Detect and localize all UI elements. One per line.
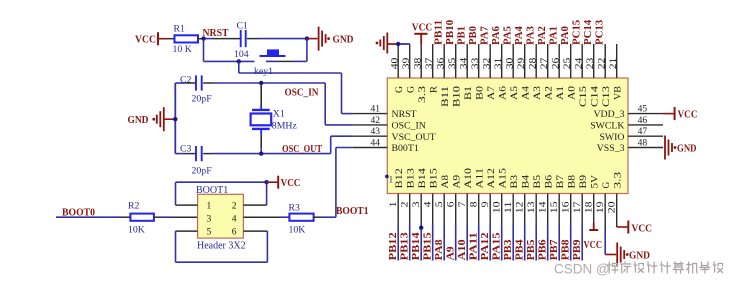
svg-text:VDD_3: VDD_3 — [593, 109, 624, 120]
svg-text:19: 19 — [596, 201, 606, 213]
svg-text:PB3: PB3 — [503, 239, 514, 260]
svg-text:2: 2 — [401, 201, 411, 207]
pin 16 — [570, 194, 572, 226]
pin 5 — [443, 194, 445, 226]
svg-text:20pF: 20pF — [192, 165, 213, 176]
svg-text:PA7: PA7 — [480, 26, 491, 45]
pin 3 — [420, 194, 422, 226]
svg-text:16: 16 — [562, 201, 572, 213]
svg-text:R3: R3 — [289, 203, 301, 214]
svg-text:47: 47 — [638, 127, 648, 137]
svg-text:A3: A3 — [532, 86, 543, 100]
wire pin 17 net — [581, 225, 583, 261]
pin 47 — [628, 135, 663, 137]
svg-text:6: 6 — [232, 228, 237, 238]
svg-text:31: 31 — [494, 57, 504, 69]
pin 11 — [512, 194, 514, 226]
junction pin3 net — [419, 226, 423, 230]
svg-text:B9: B9 — [578, 175, 589, 189]
wire OSC_IN to pin42 — [325, 124, 353, 126]
svg-text:B11: B11 — [440, 86, 451, 107]
wire pin 15 net — [558, 225, 560, 261]
pin 30 — [512, 44, 514, 78]
wire pin 13 net — [535, 225, 537, 261]
svg-text:48: 48 — [638, 138, 648, 148]
svg-text:A4: A4 — [521, 86, 532, 100]
svg-text:C1: C1 — [237, 20, 249, 31]
svg-text:32: 32 — [482, 57, 492, 69]
svg-text:PA6: PA6 — [491, 26, 502, 45]
svg-text:PA11: PA11 — [469, 232, 480, 260]
wire NRST vertical — [341, 73, 343, 114]
pin 6 stub — [243, 230, 267, 232]
pin 32 — [489, 44, 491, 78]
svg-text:PA8: PA8 — [434, 239, 445, 260]
pin 15 — [558, 194, 560, 226]
wire OSC_OUT — [213, 153, 331, 155]
svg-text:38: 38 — [413, 57, 423, 69]
push button key1 — [266, 60, 279, 62]
svg-text:35: 35 — [448, 57, 458, 69]
pin 4 stub to R3 — [243, 216, 281, 218]
svg-text:4: 4 — [424, 201, 434, 207]
ground (pin 19) — [617, 243, 624, 267]
svg-text:3.3: 3.3 — [417, 86, 428, 103]
pin 20 — [616, 194, 618, 226]
pin 41 — [353, 113, 388, 115]
wire pin 4 net — [432, 225, 434, 261]
resistor R3 — [289, 214, 313, 221]
wire pin 12 net — [524, 225, 526, 261]
svg-text:44: 44 — [371, 138, 381, 148]
wire NRST down — [203, 39, 205, 62]
svg-text:4: 4 — [232, 215, 237, 225]
svg-text:PA1: PA1 — [549, 26, 560, 45]
wire OSC_IN vertical — [324, 83, 326, 125]
svg-text:29: 29 — [517, 57, 527, 69]
svg-text:VCC: VCC — [281, 178, 301, 189]
wire NRST horizontal — [239, 72, 342, 74]
wire OSC_OUT to pin43 — [331, 135, 353, 137]
pin 17 — [581, 194, 583, 226]
capacitor C2 — [196, 75, 202, 90]
svg-text:VCC: VCC — [632, 223, 653, 234]
svg-text:A5: A5 — [509, 86, 520, 100]
svg-text:VCC: VCC — [584, 240, 603, 251]
ground (crystal) — [157, 107, 164, 131]
wire pin 10 net — [501, 225, 503, 261]
lead R2 left — [120, 216, 130, 218]
pin 6 — [455, 194, 457, 226]
svg-text:3: 3 — [412, 201, 422, 207]
svg-text:42: 42 — [371, 116, 381, 126]
pin 31 — [501, 44, 503, 78]
svg-text:10K: 10K — [289, 224, 306, 235]
svg-text:A0: A0 — [567, 86, 578, 100]
svg-text:PB14: PB14 — [411, 232, 422, 260]
svg-text:A7: A7 — [486, 86, 497, 100]
pin 23 — [593, 44, 595, 78]
power VCC (pin 20) — [627, 221, 629, 234]
pin 46 — [628, 124, 663, 126]
svg-text:9: 9 — [481, 201, 491, 207]
header P1 BOOT1 (Header 3X2) — [198, 194, 244, 238]
svg-text:15: 15 — [550, 201, 560, 213]
svg-text:PB8: PB8 — [561, 239, 572, 260]
svg-text:VCC: VCC — [678, 109, 698, 120]
svg-text:PC13: PC13 — [595, 20, 606, 45]
wire top BOOT1 loop — [176, 181, 267, 183]
svg-text:6: 6 — [447, 201, 457, 207]
svg-text:PA2: PA2 — [537, 26, 548, 45]
svg-text:20pF: 20pF — [192, 94, 213, 105]
pin 42 — [353, 124, 388, 126]
svg-text:5: 5 — [207, 228, 212, 238]
wire down to pin2 — [266, 182, 268, 205]
pin 27 — [547, 44, 549, 78]
power VCC (boot header) — [277, 176, 279, 189]
svg-text:11: 11 — [504, 201, 514, 213]
pin 7 — [466, 194, 468, 226]
wire key1 to NRST pin — [238, 61, 240, 73]
wire VCC to R1 — [158, 38, 168, 40]
svg-text:VCC: VCC — [412, 23, 432, 34]
svg-text:SWIO: SWIO — [599, 132, 624, 143]
svg-text:PA0: PA0 — [560, 26, 571, 45]
svg-text:VSS_3: VSS_3 — [597, 143, 625, 154]
wire rail to C2 — [175, 82, 186, 84]
pin 36 — [443, 44, 445, 78]
wire rail to C3 — [175, 153, 186, 155]
svg-text:25: 25 — [563, 57, 573, 69]
svg-text:B7: B7 — [555, 175, 566, 189]
power VCC (pin 45) — [674, 107, 676, 120]
pin 48 — [628, 147, 663, 149]
svg-text:23: 23 — [586, 57, 596, 69]
power VCC (pin 38) — [414, 33, 427, 35]
svg-text:GND: GND — [629, 250, 650, 261]
wire pin 19 to GND — [604, 225, 606, 230]
svg-text:PB13: PB13 — [400, 232, 411, 260]
wire pin45 to VCC — [663, 113, 674, 115]
ground (pin 48) — [665, 136, 672, 160]
svg-text:1: 1 — [207, 202, 212, 212]
svg-text:B13: B13 — [406, 168, 417, 189]
wire BOOT1 vertical — [335, 148, 337, 218]
svg-text:24: 24 — [574, 57, 584, 69]
junction NRST — [201, 36, 205, 40]
svg-text:C14: C14 — [590, 86, 601, 107]
pin 22 — [604, 44, 606, 78]
svg-text:26: 26 — [551, 57, 561, 69]
svg-text:G: G — [601, 182, 612, 189]
svg-text:13: 13 — [527, 201, 537, 213]
svg-text:B1: B1 — [463, 86, 474, 100]
pin 43 — [353, 135, 388, 137]
svg-text:40: 40 — [390, 57, 400, 69]
pin 26 — [558, 44, 560, 78]
svg-text:B5: B5 — [532, 175, 543, 189]
svg-text:B10: B10 — [452, 86, 463, 107]
wire NRST node to C1 — [204, 38, 214, 40]
pin 1 — [397, 194, 399, 226]
pin 1 stub — [176, 204, 198, 206]
lead R2 right — [154, 216, 162, 218]
svg-text:PB0: PB0 — [468, 26, 479, 45]
pin 28 — [535, 44, 537, 78]
wire GND node down — [306, 39, 308, 62]
wire crystal to OSC_OUT — [260, 148, 262, 154]
svg-text:A8: A8 — [440, 175, 451, 189]
svg-text:46: 46 — [638, 116, 648, 126]
capacitor C1 — [241, 30, 246, 47]
svg-text:PB12: PB12 — [388, 232, 399, 260]
capacitor C3 — [196, 146, 202, 161]
svg-text:8MHz: 8MHz — [272, 120, 298, 131]
svg-text:R2: R2 — [128, 200, 140, 211]
wire to VCC bar — [267, 181, 278, 183]
wire R3 to BOOT1 — [322, 216, 336, 218]
svg-text:G: G — [406, 86, 417, 93]
pin 40 — [397, 44, 399, 78]
wire key1 left contact — [204, 60, 255, 62]
svg-text:43: 43 — [371, 127, 381, 137]
svg-text:1: 1 — [389, 175, 394, 185]
wire BOOT1 to pin44 — [336, 147, 353, 149]
svg-text:1: 1 — [389, 201, 399, 207]
svg-text:PB7: PB7 — [549, 239, 560, 260]
pin 13 — [535, 194, 537, 226]
junction GND rail — [173, 117, 177, 121]
svg-text:C3: C3 — [180, 143, 192, 154]
svg-text:A9: A9 — [452, 175, 463, 189]
svg-text:10K: 10K — [128, 224, 145, 235]
pin 19 — [604, 194, 606, 226]
resistor R1 — [175, 35, 199, 42]
svg-text:A10: A10 — [463, 168, 474, 189]
svg-text:BOOT1: BOOT1 — [336, 206, 369, 217]
svg-text:B8: B8 — [567, 175, 578, 189]
wire left rail (C2/C3/GND) — [174, 83, 176, 154]
svg-text:A11: A11 — [475, 168, 486, 189]
svg-text:33: 33 — [471, 57, 481, 69]
svg-text:2: 2 — [232, 202, 237, 212]
svg-text:3.3: 3.3 — [613, 172, 624, 189]
pin 29 — [524, 44, 526, 78]
pin 14 — [547, 194, 549, 226]
svg-text:28: 28 — [528, 57, 538, 69]
svg-text:OSC_OUT: OSC_OUT — [282, 144, 322, 155]
wire pin 8 net — [478, 225, 480, 261]
svg-text:A9: A9 — [446, 246, 457, 260]
power VCC (pin 18) — [593, 223, 595, 230]
svg-text:R: R — [429, 86, 440, 93]
svg-text:B4: B4 — [521, 175, 532, 189]
svg-text:10: 10 — [493, 201, 503, 213]
svg-text:C15: C15 — [578, 86, 589, 107]
wire pin 5 net — [443, 225, 445, 261]
svg-text:NRST: NRST — [203, 28, 229, 39]
svg-text:7: 7 — [458, 201, 468, 207]
svg-text:OSC_IN: OSC_IN — [285, 87, 319, 98]
svg-text:17: 17 — [573, 201, 583, 213]
svg-text:B14: B14 — [417, 168, 428, 189]
wire bottom loop — [176, 261, 268, 263]
junction pin40 — [396, 42, 400, 46]
svg-text:PB4: PB4 — [515, 239, 526, 260]
wire to GND symbol — [307, 38, 318, 40]
wire OSC_OUT vertical — [330, 136, 332, 153]
ground (NRST RC) — [319, 27, 326, 51]
svg-text:B3: B3 — [509, 175, 520, 189]
pin 3 stub — [170, 216, 198, 218]
svg-text:PC14: PC14 — [583, 20, 594, 45]
wire pin5 down — [175, 231, 177, 262]
lead crystal bottom — [260, 135, 262, 148]
svg-text:30: 30 — [505, 57, 515, 69]
svg-text:key1: key1 — [254, 66, 273, 77]
svg-text:B15: B15 — [429, 168, 440, 189]
wire OSC_IN — [213, 82, 325, 84]
lead C3 right — [203, 153, 213, 155]
svg-text:21: 21 — [609, 57, 619, 69]
svg-text:5: 5 — [435, 201, 445, 207]
wire R2 to header — [162, 216, 170, 218]
svg-text:R1: R1 — [174, 24, 186, 35]
svg-text:39: 39 — [402, 57, 412, 69]
svg-text:PB5: PB5 — [526, 239, 537, 260]
svg-text:PB10: PB10 — [445, 20, 456, 45]
svg-text:34: 34 — [459, 57, 469, 69]
svg-text:C13: C13 — [601, 86, 612, 107]
svg-text:45: 45 — [638, 105, 648, 115]
pin 38 — [420, 44, 422, 78]
watermark CJK glyphs — [608, 262, 723, 273]
svg-text:18: 18 — [585, 201, 595, 213]
svg-text:20: 20 — [608, 201, 618, 213]
svg-text:A6: A6 — [498, 86, 509, 100]
pin 21 — [616, 44, 618, 78]
svg-text:GND: GND — [333, 34, 354, 45]
wire pin 11 net — [512, 225, 514, 261]
pin 10 — [501, 194, 503, 226]
svg-text:8: 8 — [470, 201, 480, 207]
wire pin 14 net — [547, 225, 549, 261]
pin 44 — [353, 147, 388, 149]
svg-text:CSDN @: CSDN @ — [554, 262, 610, 277]
pin 24 — [581, 44, 583, 78]
svg-text:5V: 5V — [590, 175, 601, 189]
svg-text:C2: C2 — [180, 74, 192, 85]
svg-text:10 K: 10 K — [173, 44, 192, 55]
lead C1 right — [247, 38, 259, 40]
svg-text:PA3: PA3 — [526, 26, 537, 45]
svg-text:B00T1: B00T1 — [392, 143, 419, 154]
svg-text:3: 3 — [207, 215, 212, 225]
junction VCC boot — [264, 180, 268, 184]
pin 8 — [478, 194, 480, 226]
wire NRST to pin41 — [342, 113, 353, 115]
svg-text:37: 37 — [425, 57, 435, 69]
svg-text:PB6: PB6 — [538, 239, 549, 260]
pin 37 — [432, 44, 434, 78]
svg-text:PB15: PB15 — [423, 232, 434, 260]
wire BOOT0 — [56, 216, 120, 218]
op-amp U1 STM32 body — [387, 78, 628, 194]
svg-text:GND: GND — [677, 143, 697, 154]
junction GND node — [305, 36, 309, 40]
crystal X1 8MHz — [260, 106, 262, 110]
svg-text:36: 36 — [436, 57, 446, 69]
svg-text:22: 22 — [597, 57, 607, 69]
wire up to pin6 — [266, 231, 268, 262]
pin 4 — [432, 194, 434, 226]
svg-text:VSC_OUT: VSC_OUT — [392, 132, 436, 143]
pin 39 — [409, 44, 411, 78]
svg-text:B0: B0 — [475, 86, 486, 100]
svg-text:A1: A1 — [555, 86, 566, 100]
svg-text:PA4: PA4 — [514, 26, 525, 45]
ground (pins 40,39) — [380, 33, 387, 54]
power VCC (R1 input) — [157, 32, 159, 45]
pin 1 marker — [385, 175, 389, 179]
pin 18 — [593, 194, 595, 226]
svg-text:PB9: PB9 — [572, 239, 583, 260]
svg-text:X1: X1 — [273, 109, 285, 120]
wire pin 2 net — [409, 225, 411, 261]
pin 9 — [489, 194, 491, 226]
pin 2 — [409, 194, 411, 226]
pin 35 — [455, 44, 457, 78]
junction crystal bottom — [259, 151, 263, 155]
svg-text:SWCLK: SWCLK — [590, 121, 624, 132]
svg-text:BOOT1: BOOT1 — [196, 185, 228, 196]
svg-text:A10: A10 — [457, 239, 468, 260]
svg-text:A12: A12 — [486, 168, 497, 189]
svg-text:PA15: PA15 — [492, 232, 503, 260]
svg-text:104: 104 — [234, 49, 249, 60]
wire pin 3 net — [420, 225, 422, 261]
wire pin 7 net — [466, 225, 468, 261]
svg-text:12: 12 — [516, 201, 526, 213]
svg-text:PA5: PA5 — [503, 26, 514, 45]
svg-text:PB1: PB1 — [457, 26, 468, 45]
wire pin 16 net — [570, 225, 572, 261]
svg-text:VCC: VCC — [135, 34, 156, 45]
svg-text:OSC_IN: OSC_IN — [392, 121, 426, 132]
wire pins 40-39 to GND — [387, 43, 398, 45]
svg-text:Header 3X2: Header 3X2 — [197, 240, 246, 251]
svg-text:PA12: PA12 — [480, 232, 491, 260]
pin 2 stub — [243, 204, 266, 206]
wire C1 to GND node — [259, 38, 307, 40]
lead crystal top — [260, 83, 262, 107]
svg-text:14: 14 — [539, 201, 549, 213]
svg-text:27: 27 — [540, 57, 550, 69]
junction crystal top — [259, 81, 263, 85]
svg-text:VB: VB — [613, 86, 624, 100]
wire pin 6 net — [455, 225, 457, 261]
pin 25 — [570, 44, 572, 78]
svg-text:G: G — [394, 86, 405, 93]
pin 33 — [478, 44, 480, 78]
pin 34 — [466, 44, 468, 78]
lead R3 right — [314, 216, 322, 218]
lead R1 right — [198, 38, 204, 40]
svg-text:GND: GND — [128, 115, 149, 126]
wire pin1 up — [175, 182, 177, 205]
lead C2 right — [203, 82, 213, 84]
